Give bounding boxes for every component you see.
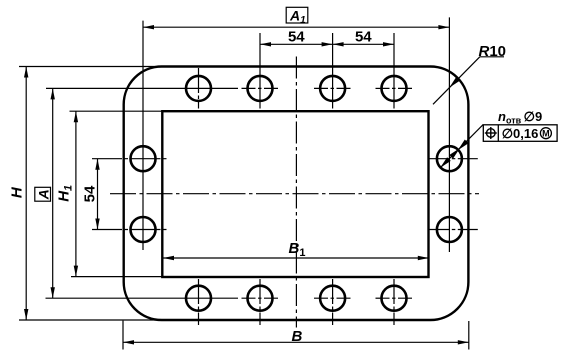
dimension H: top arrow: [24, 67, 28, 78]
dimension A: dim line: [52, 88, 54, 298]
dimension A1: dim line: [143, 26, 449, 28]
dimension A: bottom extension line: [46, 297, 239, 299]
dimension A: top extension line (merges with hole row centerline): [46, 87, 238, 89]
dimension 54 left: bottom extension line (hole centerline): [92, 229, 169, 231]
plate outline (rounded flange): [124, 67, 469, 321]
dimension B: left extension line: [122, 321, 124, 350]
dimension 54 top second: dim line: [333, 43, 394, 45]
dimension H: bottom extension line: [19, 319, 161, 321]
hole top row 1: [186, 76, 211, 101]
hole left column top: [131, 146, 156, 171]
left hole column centerline / A1 left extension: [142, 21, 144, 250]
hole top row 4: [382, 76, 407, 101]
radius R10: arrowhead: [449, 77, 460, 88]
hole top row 2: [248, 76, 273, 101]
hole centerline horizontal bottom row 3: [314, 297, 351, 299]
dimension 54 top second: right arrow: [383, 42, 394, 46]
hole centerline horizontal top row 2: [242, 87, 279, 89]
dimension 54 top first: right arrow: [322, 42, 333, 46]
main vertical centerline: [295, 57, 297, 328]
position symbol: [487, 129, 496, 138]
hole right column top: [437, 146, 462, 171]
dimension B1: left arrow: [163, 256, 174, 260]
dimension H: top extension line: [19, 66, 161, 68]
hole left column bottom: [131, 217, 156, 242]
svg-text:H: H: [9, 186, 26, 198]
hole centerline vertical bottom row 1: [198, 279, 200, 325]
dimension A1: left arrow: [143, 25, 154, 29]
extension line 54-dim at hole 3: [332, 33, 334, 109]
dimension H1: top arrow: [74, 111, 78, 122]
dimension A: bottom arrow: [51, 287, 55, 298]
dimension 54 top second: left arrow: [333, 42, 344, 46]
hole centerline vertical bottom row 4: [393, 279, 395, 325]
holes note: bowtie arrow pointing down-left: [458, 140, 469, 151]
dimension 54 top first: left arrow: [260, 42, 271, 46]
hole centerline vertical bottom row 2: [259, 279, 261, 325]
hole bottom row 2: [248, 286, 273, 311]
hole bottom row 1: [186, 286, 211, 311]
dimension 54 left: top extension line (hole centerline): [92, 158, 169, 160]
svg-text:R10: R10: [479, 43, 507, 60]
dimension H: bottom arrow: [24, 309, 28, 320]
extension line 54-dim at hole 2: [259, 33, 261, 109]
hole top row 3: [320, 76, 345, 101]
hole centerline vertical top row 1: [198, 68, 200, 109]
dimension H1: bottom extension line: [71, 276, 163, 278]
svg-text:54: 54: [82, 185, 99, 202]
main horizontal centerline: [110, 193, 479, 195]
dimension 54 top first: dim line: [260, 43, 333, 45]
hole centerline horizontal top row 4: [376, 87, 413, 89]
extension line 54-dim at hole 4: [393, 33, 395, 109]
dimension A: top arrow: [51, 88, 55, 99]
hole bottom row 3: [320, 286, 345, 311]
dimension H1: bottom arrow: [74, 266, 78, 277]
dimension H1: top extension line: [70, 110, 164, 112]
svg-text:54: 54: [288, 28, 305, 45]
hole centerline vertical bottom row 3: [332, 279, 334, 325]
right hole column centerline / A1 right extension: [448, 17, 450, 252]
hole centerline horizontal right column top: [429, 158, 478, 160]
radius R10: leader line: [433, 57, 480, 105]
dimension 54 left: top arrow: [95, 159, 99, 170]
dimension B1: dim line: [163, 257, 429, 259]
dimension B: right arrow: [458, 340, 469, 344]
dimension A1: right arrow: [438, 25, 449, 29]
svg-text:A: A: [35, 189, 51, 200]
svg-text:54: 54: [355, 28, 372, 45]
dimension B1: right arrow: [418, 256, 429, 260]
hole right column bottom: [437, 217, 462, 242]
feature control frame: [483, 125, 557, 142]
holes note: leader line: [440, 124, 483, 167]
holes note: lower-left arrowhead: [440, 157, 451, 168]
material modifier M in circle: [540, 128, 551, 139]
hole centerline horizontal bottom row 4: [376, 297, 413, 299]
dimension B: right extension line: [468, 321, 470, 350]
dimension 54 left: dim line: [97, 159, 99, 230]
dimension 54 left: bottom arrow: [95, 219, 99, 230]
svg-text:B: B: [292, 328, 303, 345]
dimension H: dim line: [25, 67, 27, 321]
dimension B: dim line: [123, 341, 469, 343]
dimension A: boxed label: [35, 187, 52, 201]
hole centerline horizontal top row 3: [314, 87, 351, 89]
hole centerline horizontal right column bottom: [429, 229, 478, 231]
holes note: bowtie arrow pointing up-right: [449, 148, 460, 159]
svg-text:∅0,16: ∅0,16: [502, 126, 539, 141]
dimension B: left arrow: [123, 340, 134, 344]
svg-text:M: M: [542, 128, 550, 138]
dimension A1: boxed label: [286, 7, 308, 26]
dimension H1: dim line: [75, 111, 77, 276]
radius R10: shelf line: [480, 56, 505, 58]
hole centerline horizontal bottom row 2: [242, 297, 279, 299]
hole bottom row 4: [382, 286, 407, 311]
inner cutout rectangle: [162, 111, 428, 277]
